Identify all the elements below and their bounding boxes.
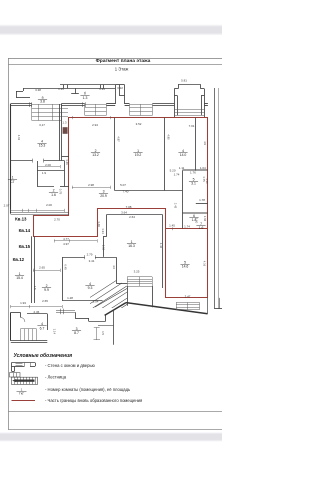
wall y=300.6 [62, 300, 103, 302]
legend icon wall+window+door [11, 362, 35, 364]
svg-text:3.8: 3.8 [40, 100, 45, 104]
svg-text:15.4: 15.4 [16, 276, 23, 280]
svg-text:13.2: 13.2 [92, 153, 99, 157]
svg-text:1.9: 1.9 [42, 171, 47, 175]
porch step outline [75, 312, 77, 318]
svg-text:1.74: 1.74 [174, 172, 180, 176]
svg-text:1: 1 [21, 387, 23, 391]
svg-text:3.25: 3.25 [134, 269, 140, 273]
svg-text:3.64: 3.64 [121, 211, 127, 215]
svg-text:1.78: 1.78 [199, 198, 205, 202]
shaft between bays [115, 85, 117, 104]
dim corridor [72, 187, 110, 189]
svg-text:1.66: 1.66 [203, 216, 207, 222]
svg-text:4.16: 4.16 [202, 261, 206, 267]
svg-text:Кв.12: Кв.12 [13, 257, 25, 262]
svg-text:1 Этаж: 1 Этаж [115, 66, 129, 71]
svg-text:2.65: 2.65 [39, 266, 45, 270]
svg-text:1.46: 1.46 [65, 159, 69, 165]
red boundary of new premises (polygon) [34, 118, 208, 298]
svg-text:3.38: 3.38 [35, 88, 41, 92]
svg-text:4.9: 4.9 [203, 141, 207, 145]
window comb bottom-left [20, 328, 36, 330]
wall x=195.8 room D right [195, 118, 197, 171]
svg-text:3.22: 3.22 [117, 86, 123, 90]
page background [0, 0, 222, 480]
svg-text:1.5: 1.5 [101, 331, 105, 335]
svg-text:а: а [42, 95, 44, 99]
stair wall x=152 [152, 286, 154, 307]
svg-text:Кв.13: Кв.13 [15, 216, 27, 221]
window grid 1 (left room) [32, 104, 61, 106]
right bay window rows [174, 109, 204, 111]
svg-text:2.00: 2.00 [45, 163, 51, 167]
window edge ticks [29, 102, 31, 107]
dim bathroom [37, 166, 60, 168]
title box top line [8, 58, 222, 60]
svg-text:1.35: 1.35 [99, 87, 105, 91]
porch dim vertical [96, 328, 98, 341]
svg-text:4.97: 4.97 [63, 242, 69, 246]
ticks on red top line [72, 116, 74, 119]
svg-text:2.43: 2.43 [174, 203, 178, 209]
svg-text:1.3: 1.3 [83, 96, 88, 100]
svg-text:5.81: 5.81 [181, 79, 187, 83]
apartment divider wall kv13/kv14 (double) [11, 212, 69, 214]
svg-text:Фрагмент плана этажа: Фрагмент плана этажа [96, 58, 151, 64]
svg-text:9.9: 9.9 [44, 288, 49, 292]
page frame left edge [8, 58, 10, 430]
svg-text:20.9: 20.9 [100, 194, 107, 198]
svg-text:14.6: 14.6 [182, 265, 189, 269]
exterior top wall [11, 103, 32, 105]
svg-text:14.0: 14.0 [180, 153, 187, 157]
wall y=257.2 with door [62, 257, 85, 259]
title box mid line [8, 64, 222, 66]
svg-text:5: 5 [184, 260, 186, 264]
grey page-gap band bottom [0, 432, 222, 441]
svg-text:1.5: 1.5 [33, 286, 37, 290]
svg-text:2.94: 2.94 [92, 123, 98, 127]
svg-text:4.77: 4.77 [63, 237, 69, 241]
bathroom walls [37, 161, 39, 186]
svg-text:3.41: 3.41 [89, 259, 95, 263]
svg-text:7.08: 7.08 [126, 205, 132, 209]
wall y=203.2 closet divider [196, 203, 208, 205]
room A right wall (double) [59, 104, 61, 161]
middle room right wall [162, 215, 164, 289]
svg-text:4.42: 4.42 [159, 243, 163, 249]
svg-text:ТКГ: ТКГ [19, 392, 25, 396]
svg-text:1.10: 1.10 [102, 245, 106, 251]
svg-text:1.48: 1.48 [97, 221, 101, 227]
wall x=116.4 [116, 257, 118, 283]
svg-text:6.7: 6.7 [40, 326, 45, 330]
small wall over shaft [61, 156, 69, 158]
svg-text:4.87: 4.87 [117, 136, 121, 142]
stair left wall x=127.2 [127, 286, 129, 306]
middle room left wall [106, 215, 108, 237]
diagonal exterior wall [105, 303, 126, 316]
svg-text:4: 4 [41, 139, 43, 143]
red inner divider [166, 228, 208, 230]
svg-text:1.11: 1.11 [179, 166, 185, 170]
svg-text:3.52: 3.52 [136, 122, 142, 126]
svg-text:1.45: 1.45 [169, 224, 175, 228]
dark pier at red corner [63, 127, 68, 134]
svg-text:2.65: 2.65 [42, 299, 48, 303]
svg-text:- Часть границы вновь образова: - Часть границы вновь образованного поме… [45, 398, 142, 403]
svg-text:2.98: 2.98 [88, 183, 94, 187]
svg-text:1.93: 1.93 [20, 301, 26, 305]
door arc bottom-left [20, 317, 25, 322]
svg-text:4.6: 4.6 [112, 265, 116, 269]
legend icon red line [12, 400, 36, 402]
wall x=113.4 down [113, 310, 115, 345]
svg-text:19.2: 19.2 [135, 153, 142, 157]
svg-text:8.7: 8.7 [74, 331, 79, 335]
right bay outline [174, 89, 176, 118]
svg-text:3,17: 3,17 [39, 123, 45, 127]
wall under room A with door [11, 160, 33, 162]
svg-text:0.75: 0.75 [59, 189, 63, 195]
svg-text:3: 3 [103, 190, 105, 194]
wall x=62 [62, 257, 64, 300]
T-pier on top wall [75, 88, 77, 93]
svg-text:5.20: 5.20 [170, 168, 176, 172]
svg-text:4.90: 4.90 [167, 134, 171, 140]
svg-text:2.36: 2.36 [33, 310, 39, 314]
svg-text:15.3: 15.3 [39, 144, 46, 148]
svg-text:2: 2 [53, 189, 55, 193]
svg-text:16.3: 16.3 [128, 244, 135, 248]
svg-text:1.3: 1.3 [62, 121, 67, 125]
apartment divider x=32-34.5 (double) [31, 236, 33, 303]
svg-text:Кв.14: Кв.14 [19, 228, 31, 233]
svg-text:3.47: 3.47 [185, 295, 191, 299]
legend icon staircase [10, 373, 21, 377]
svg-text:1.14: 1.14 [53, 329, 57, 335]
porch inner line [98, 325, 113, 327]
svg-text:1: 1 [12, 176, 14, 180]
dim 4.77/4.97 [54, 240, 97, 242]
svg-text:1.10: 1.10 [205, 178, 209, 184]
bottom-left bay walls [10, 312, 12, 340]
svg-text:1.04: 1.04 [200, 166, 206, 170]
svg-text:2.79: 2.79 [87, 252, 93, 256]
middle room top wall [107, 214, 163, 216]
svg-text:2.70: 2.70 [54, 218, 60, 222]
svg-text:4.61: 4.61 [17, 135, 21, 141]
svg-text:- Лестница: - Лестница [45, 374, 67, 379]
wall y=213.3 (double) [182, 212, 207, 214]
svg-text:2.07: 2.07 [4, 204, 10, 208]
svg-text:СГ: СГ [10, 180, 14, 184]
svg-text:Условные обозначения: Условные обозначения [14, 352, 73, 359]
grey stub under red right corner [207, 298, 209, 314]
svg-text:5: 5 [193, 177, 195, 181]
dim kv13 bottom [11, 210, 65, 212]
landing wall y=283.6 [116, 283, 127, 285]
svg-text:3.1: 3.1 [191, 182, 196, 186]
neighbour building walls right [214, 88, 216, 309]
exterior bottom wall of left bay (double) [11, 340, 48, 342]
wall y=310.7-312.2 (double) with ticks [56, 310, 75, 312]
wall y=190.6 corridor [115, 190, 183, 192]
left exterior wall [10, 104, 12, 214]
wall x=164.9 rooms C/D [164, 118, 166, 191]
svg-text:9.3: 9.3 [88, 286, 93, 290]
svg-text:1.6: 1.6 [199, 226, 204, 230]
svg-text:1.34: 1.34 [101, 228, 105, 234]
svg-text:7.01: 7.01 [189, 124, 195, 128]
sloped bottom exterior wall [126, 303, 208, 314]
svg-text:7.40: 7.40 [123, 190, 129, 194]
svg-text:1.6: 1.6 [51, 193, 56, 197]
svg-text:1.28: 1.28 [67, 296, 73, 300]
svg-text:1.35: 1.35 [58, 87, 64, 91]
svg-text:1.8: 1.8 [192, 218, 197, 222]
dim kv12 [33, 270, 60, 272]
svg-text:1: 1 [131, 240, 133, 244]
svg-text:1.74: 1.74 [184, 224, 190, 228]
stair grid middle [127, 276, 152, 278]
party wall ticks on parapet [63, 85, 65, 89]
dim bottom-left [11, 306, 62, 308]
svg-text:2.04: 2.04 [93, 300, 99, 304]
svg-text:2.64: 2.64 [129, 215, 135, 219]
window grid 2 [85, 104, 106, 106]
frame bottom line [8, 429, 222, 431]
legend bottom rule [8, 411, 222, 413]
svg-text:2.00: 2.00 [46, 203, 52, 207]
svg-text:1.76: 1.76 [190, 171, 196, 175]
window grid 3 [130, 104, 153, 106]
stair grid bottom-right [176, 302, 200, 304]
wall y=170.4 (double) right rooms [182, 169, 207, 171]
window lines in shaft strip [62, 108, 68, 110]
svg-text:б: б [84, 92, 86, 96]
svg-text:6.45: 6.45 [63, 264, 67, 270]
svg-text:- Стена с окном и дверью: - Стена с окном и дверью [45, 363, 95, 368]
svg-text:Кв.15: Кв.15 [19, 244, 31, 249]
svg-text:5.07: 5.07 [120, 183, 126, 187]
wall x=114.8 rooms B/C [114, 118, 116, 191]
svg-text:- Номер комнаты (помещения), е: - Номер комнаты (помещения), её площадь [45, 387, 131, 392]
left balcony parapet [16, 91, 18, 98]
wall x=182.4 [182, 170, 184, 228]
